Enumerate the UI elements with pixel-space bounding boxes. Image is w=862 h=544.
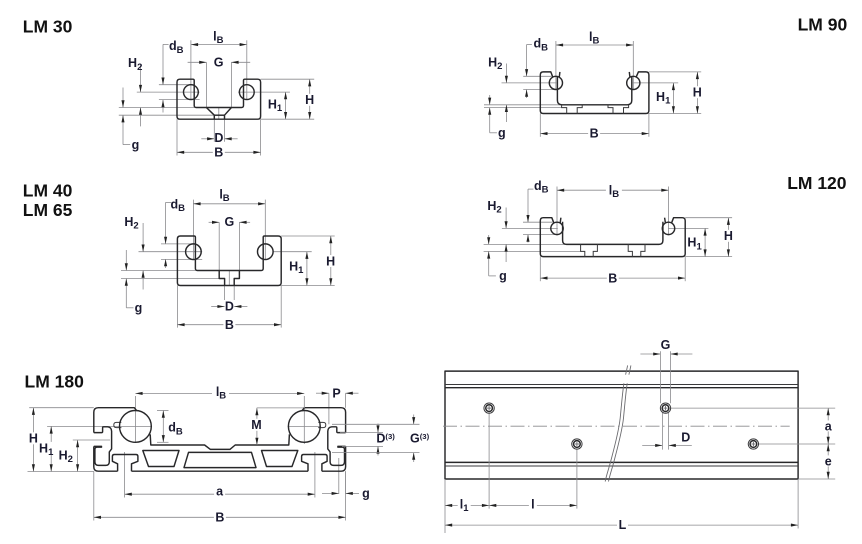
svg-text:a: a — [216, 485, 224, 499]
svg-text:g: g — [498, 126, 506, 140]
svg-text:D: D — [681, 431, 690, 445]
svg-text:H: H — [305, 93, 314, 107]
svg-text:B: B — [608, 271, 617, 285]
svg-text:G: G — [225, 215, 235, 229]
svg-text:D: D — [225, 300, 234, 314]
svg-text:H: H — [693, 86, 702, 100]
svg-text:LM 90: LM 90 — [798, 14, 848, 34]
svg-text:LM 30: LM 30 — [23, 17, 73, 37]
svg-text:g: g — [362, 487, 370, 501]
svg-text:H: H — [326, 254, 335, 268]
svg-text:a: a — [825, 419, 833, 433]
svg-text:g: g — [135, 301, 143, 315]
svg-text:LM 120: LM 120 — [787, 173, 847, 193]
svg-text:B: B — [215, 511, 224, 525]
svg-text:G: G — [214, 55, 224, 69]
svg-text:B: B — [225, 318, 234, 332]
svg-text:l: l — [531, 498, 534, 512]
svg-text:B: B — [590, 126, 599, 140]
svg-text:g: g — [132, 138, 140, 152]
svg-text:P: P — [332, 386, 340, 400]
svg-text:g: g — [499, 269, 507, 283]
svg-text:H: H — [29, 432, 38, 446]
svg-text:H: H — [724, 229, 733, 243]
svg-text:M: M — [251, 418, 261, 432]
svg-text:LM 180: LM 180 — [25, 371, 85, 391]
svg-text:D: D — [214, 131, 223, 145]
svg-text:L: L — [619, 518, 627, 532]
svg-text:e: e — [825, 454, 832, 468]
svg-text:B: B — [214, 146, 223, 160]
svg-text:LM 65: LM 65 — [23, 200, 73, 220]
svg-text:LM 40: LM 40 — [23, 180, 73, 200]
svg-text:G: G — [661, 338, 671, 352]
